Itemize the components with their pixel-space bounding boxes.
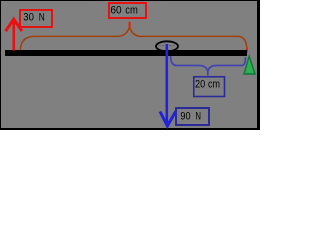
svg-text:cm: cm: [208, 79, 220, 91]
svg-text:cm: cm: [125, 5, 138, 17]
svg-text:20: 20: [195, 79, 205, 91]
svg-text:30: 30: [23, 12, 34, 24]
svg-text:N: N: [195, 110, 201, 122]
svg-text:90: 90: [180, 110, 190, 122]
svg-text:N: N: [39, 12, 45, 24]
svg-text:60: 60: [110, 5, 121, 17]
